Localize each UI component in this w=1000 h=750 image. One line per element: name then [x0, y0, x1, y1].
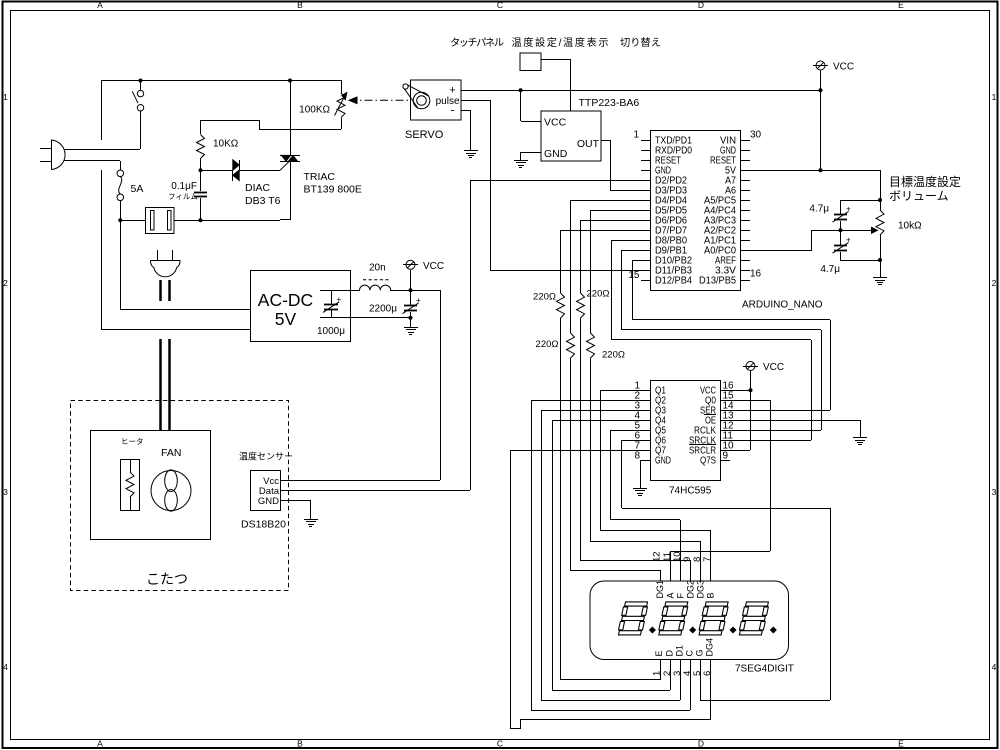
svg-text:GND: GND [655, 456, 671, 467]
svg-text:D: D [698, 739, 704, 749]
svg-text:A: A [666, 592, 676, 598]
svg-text:D: D [665, 650, 675, 657]
svg-text:E: E [898, 739, 904, 749]
svg-text:12: 12 [652, 551, 663, 562]
svg-text:VCC: VCC [423, 261, 444, 272]
svg-text:0.1μF: 0.1μF [171, 181, 197, 192]
svg-text:5V: 5V [275, 309, 297, 329]
svg-text:VCC: VCC [544, 117, 567, 129]
svg-text:温度設定/温度表示: 温度設定/温度表示 [512, 36, 609, 49]
svg-text:74HC595: 74HC595 [669, 486, 712, 497]
svg-text:温度センサー: 温度センサー [239, 451, 293, 462]
svg-text:20n: 20n [369, 263, 386, 274]
svg-text:6: 6 [702, 671, 713, 676]
svg-text:1: 1 [3, 92, 8, 102]
svg-text:3: 3 [3, 487, 8, 497]
svg-text:DS18B20: DS18B20 [241, 519, 286, 531]
svg-text:9: 9 [723, 451, 729, 462]
svg-text:VCC: VCC [763, 362, 784, 373]
svg-text:8: 8 [634, 451, 640, 462]
svg-text:30: 30 [750, 130, 762, 141]
svg-text:ヒータ: ヒータ [121, 437, 144, 446]
svg-text:+: + [416, 296, 421, 305]
svg-text:E: E [654, 650, 664, 656]
svg-text:2: 2 [3, 278, 8, 288]
svg-text:220Ω: 220Ω [533, 292, 556, 303]
svg-text:DB3 T6: DB3 T6 [245, 195, 281, 207]
svg-text:C: C [685, 650, 695, 657]
svg-text:5A: 5A [131, 183, 144, 195]
svg-text:B: B [706, 592, 716, 598]
svg-text:220Ω: 220Ω [536, 339, 559, 350]
svg-text:DIAC: DIAC [245, 182, 271, 194]
svg-text:4.7μ: 4.7μ [820, 264, 840, 275]
svg-text:+: + [449, 85, 455, 97]
svg-text:DG4: DG4 [705, 638, 715, 657]
svg-text:1: 1 [992, 92, 997, 102]
svg-text:7SEG4DIGIT: 7SEG4DIGIT [735, 664, 794, 675]
svg-text:2200μ: 2200μ [369, 304, 397, 315]
svg-text:2: 2 [992, 278, 997, 288]
svg-text:SERVO: SERVO [405, 129, 444, 141]
svg-text:Q7S: Q7S [700, 456, 716, 467]
svg-text:16: 16 [750, 269, 762, 280]
svg-text:TRIAC: TRIAC [304, 171, 336, 183]
svg-text:+: + [846, 236, 851, 245]
svg-text:ボリューム: ボリューム [889, 189, 949, 203]
svg-text:7: 7 [702, 557, 713, 562]
svg-text:4.7μ: 4.7μ [809, 204, 829, 215]
svg-text:1: 1 [633, 130, 639, 141]
svg-text:BT139 800E: BT139 800E [304, 184, 362, 196]
svg-text:-: - [451, 103, 455, 117]
svg-text:10kΩ: 10kΩ [898, 221, 922, 232]
svg-text:VCC: VCC [833, 62, 854, 73]
svg-text:G: G [695, 649, 705, 656]
svg-text:A: A [97, 0, 103, 10]
svg-text:4: 4 [3, 662, 8, 672]
svg-text:目標温度設定: 目標温度設定 [889, 174, 961, 189]
svg-text:FAN: FAN [161, 447, 181, 459]
svg-text:DG3: DG3 [696, 580, 706, 599]
svg-text:B: B [297, 739, 303, 749]
svg-text:ARDUINO_NANO: ARDUINO_NANO [742, 300, 823, 311]
svg-text:3: 3 [992, 487, 997, 497]
svg-text:1: 1 [652, 671, 663, 676]
svg-text:D13/PB5: D13/PB5 [699, 276, 736, 287]
svg-text:15: 15 [628, 270, 640, 281]
svg-text:TTP223-BA6: TTP223-BA6 [579, 97, 640, 109]
svg-text:pulse: pulse [436, 96, 460, 107]
svg-text:GND: GND [258, 496, 279, 507]
svg-text:+: + [337, 295, 342, 304]
svg-text:タッチパネル: タッチパネル [450, 37, 504, 49]
svg-text:220Ω: 220Ω [587, 289, 610, 300]
svg-text:こたつ: こたつ [146, 571, 188, 587]
svg-text:220Ω: 220Ω [602, 350, 625, 361]
svg-text:10KΩ: 10KΩ [213, 139, 239, 150]
svg-text:F: F [676, 593, 686, 599]
svg-text:C: C [497, 739, 503, 749]
svg-text:D: D [698, 0, 704, 10]
svg-text:A: A [97, 739, 103, 749]
svg-text:E: E [898, 0, 904, 10]
svg-text:OUT: OUT [577, 138, 600, 150]
svg-text:DG1: DG1 [655, 580, 665, 599]
svg-text:4: 4 [992, 662, 997, 672]
svg-text:1000μ: 1000μ [317, 326, 345, 337]
svg-text:+: + [846, 205, 851, 214]
svg-text:切り替え: 切り替え [620, 36, 661, 49]
svg-text:フィルム: フィルム [168, 192, 198, 201]
svg-text:C: C [497, 0, 503, 10]
svg-text:B: B [297, 0, 303, 10]
svg-text:DG2: DG2 [686, 580, 696, 599]
svg-text:100KΩ: 100KΩ [299, 105, 330, 116]
svg-text:D1: D1 [675, 645, 685, 657]
svg-text:D12/PB4: D12/PB4 [655, 276, 693, 287]
svg-text:GND: GND [544, 148, 568, 160]
svg-text:AC-DC: AC-DC [258, 290, 313, 310]
